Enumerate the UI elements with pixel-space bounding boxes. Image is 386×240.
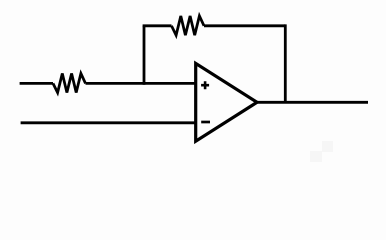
- wire: feedback vertical left (node junction to top): [143, 26, 146, 85]
- wire: inverting input (bottom): [21, 121, 196, 124]
- op-amp U1 triangle: [196, 63, 257, 141]
- faint watermark block upper: [322, 141, 333, 152]
- wire: output: [257, 101, 368, 104]
- wire: feedback vertical right down to output: [284, 24, 287, 103]
- faint watermark block lower: [310, 151, 322, 162]
- wire: top feedback left segment: [143, 24, 172, 27]
- wire: input left segment: [20, 82, 53, 85]
- op-amp + (non-inverting) label: [201, 81, 209, 89]
- op-amp − (inverting) label: [201, 121, 210, 124]
- resistor R2 (feedback): [172, 16, 205, 35]
- resistor R1 (input): [53, 73, 86, 92]
- wire: input right segment to op-amp + input: [86, 82, 196, 85]
- wire: top feedback right segment: [204, 24, 285, 27]
